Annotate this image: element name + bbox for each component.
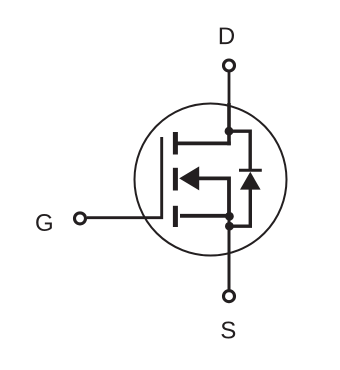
transistor Q1 (N-channel power MOSFET envelope circle)	[135, 104, 287, 256]
wire: gate lead and gate electrode line	[87, 137, 162, 218]
wire: source lead from source node to terminal S	[228, 216, 231, 291]
wire: body diode bottom branch (anode to source node)	[229, 188, 250, 226]
wire: body diode top branch (drain node to cathode)	[228, 131, 251, 170]
wire: source contact bar to source node	[180, 214, 229, 218]
transistor Q1 source contact bar	[173, 206, 178, 227]
transistor Q1 body contact bar	[173, 168, 178, 191]
junction: body diode return node	[225, 222, 234, 231]
label D (drain)	[220, 28, 234, 45]
wire: body contact (arrow) to source node	[199, 178, 229, 216]
junction: drain node (MOSFET drain / body-diode cathode branch)	[225, 127, 234, 136]
terminal D (drain pin circle)	[224, 60, 235, 71]
transistor Q1 body arrow (substrate arrow pointing to channel)	[179, 166, 199, 190]
wire: drain vertical inside envelope down to drain bar line	[227, 103, 231, 145]
transistor Q1 drain contact bar	[173, 132, 178, 155]
label S (source)	[221, 322, 235, 339]
wire: drain lead from terminal D into envelope	[228, 71, 231, 104]
diode D1 anode triangle	[240, 172, 261, 190]
wire: drain contact bar to drain node	[177, 141, 231, 145]
terminal G (gate pin circle)	[75, 213, 86, 224]
junction: source node (source bar to lead)	[225, 212, 234, 221]
terminal S (source pin circle)	[224, 291, 235, 302]
diode D1 cathode bar	[239, 169, 262, 172]
label G (gate)	[36, 214, 52, 231]
